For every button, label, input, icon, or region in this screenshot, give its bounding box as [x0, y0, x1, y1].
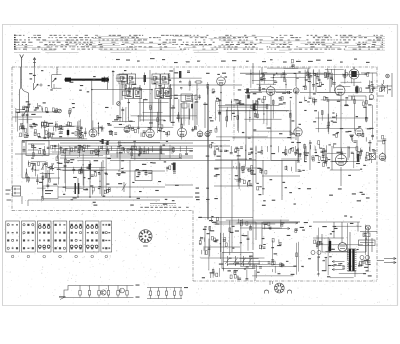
junction — [89, 196, 91, 198]
wire — [298, 242, 300, 272]
wire — [52, 148, 193, 150]
wire — [240, 266, 296, 268]
wire — [12, 116, 42, 118]
wire — [317, 228, 319, 277]
junction — [240, 220, 241, 221]
scan noise texture — [23, 48, 26, 51]
component cluster — [295, 228, 298, 230]
resistor — [129, 88, 131, 92]
wire — [353, 79, 355, 86]
shield box left open — [52, 74, 62, 76]
capacitor — [330, 76, 333, 78]
capacitor — [307, 77, 310, 79]
tube socket diagram 5 — [69, 221, 83, 252]
wire — [270, 140, 272, 160]
junction — [106, 143, 107, 144]
capacitor — [324, 161, 327, 163]
wire — [23, 146, 25, 154]
component cluster — [261, 170, 263, 174]
terminal strip — [21, 196, 23, 204]
wire — [143, 146, 145, 152]
arrow out 2 — [262, 228, 290, 230]
IF transformer can T7 — [155, 89, 163, 99]
resistor — [79, 170, 81, 174]
wire — [327, 114, 329, 132]
wire — [262, 160, 264, 195]
resistor — [177, 115, 179, 119]
component cluster — [194, 126, 196, 130]
wire — [377, 260, 384, 262]
wire loop left leg — [20, 88, 21, 112]
wire — [269, 281, 271, 285]
wire — [231, 99, 233, 120]
wire — [98, 146, 100, 157]
wire — [40, 173, 54, 175]
wire — [107, 146, 109, 151]
wire — [212, 269, 214, 278]
pot row P1 — [32, 163, 34, 170]
component cluster — [47, 167, 50, 168]
wire — [178, 99, 180, 123]
resistor — [65, 159, 67, 163]
wire — [45, 166, 47, 177]
component cluster — [368, 159, 371, 160]
wire — [236, 166, 238, 170]
junction — [245, 150, 246, 151]
wire — [252, 63, 254, 73]
power transformer T1 — [349, 249, 351, 271]
junction — [261, 72, 263, 74]
speaker feed wire — [272, 281, 274, 284]
IF transformer can T4 — [161, 74, 169, 84]
wire — [223, 261, 269, 263]
lamp branch 4 — [108, 286, 110, 291]
wire — [240, 220, 242, 266]
junction — [231, 101, 232, 102]
resistor R(dark) — [67, 130, 69, 135]
wire — [235, 178, 244, 180]
wire — [317, 244, 363, 246]
ladder input label +PU — [59, 296, 66, 297]
tube V15 — [124, 127, 130, 133]
wire — [300, 92, 336, 94]
wire — [332, 73, 334, 85]
resistor — [48, 133, 50, 137]
resistor — [316, 243, 318, 247]
capacitor — [121, 108, 124, 110]
resistor — [344, 74, 346, 78]
wire — [114, 126, 174, 128]
wire — [330, 277, 354, 279]
component cluster — [165, 132, 168, 134]
wire — [239, 163, 241, 181]
switch S1a — [33, 83, 35, 90]
wire — [252, 72, 254, 84]
wire — [297, 148, 299, 162]
component cluster — [285, 166, 287, 170]
wire — [285, 79, 287, 88]
tube V13 — [379, 154, 386, 161]
wire — [161, 146, 163, 154]
wire — [214, 185, 253, 187]
potentiometer P4 — [243, 256, 245, 265]
wire — [230, 146, 232, 152]
page edge right — [397, 25, 399, 306]
ladder 2 top rail — [147, 287, 182, 289]
capacitor — [47, 184, 50, 186]
component cluster — [235, 149, 237, 153]
wire — [209, 226, 211, 257]
wire — [309, 140, 311, 170]
capacitor — [72, 168, 75, 170]
component cluster — [140, 133, 142, 137]
capacitor — [64, 164, 67, 166]
wire — [245, 145, 247, 167]
resistor — [131, 146, 133, 150]
wire — [315, 73, 317, 92]
resistor — [322, 152, 324, 156]
wire — [34, 163, 36, 176]
component cluster — [91, 174, 94, 176]
junction — [351, 72, 352, 73]
component cluster — [307, 101, 310, 102]
wire — [338, 85, 351, 87]
stacked dark resistors — [246, 88, 249, 93]
junction — [129, 196, 131, 198]
wire — [234, 270, 236, 272]
wire — [77, 160, 89, 162]
electrolytic audio — [173, 163, 176, 171]
wire — [60, 142, 193, 144]
junction — [249, 117, 250, 118]
dial lamp top right — [386, 74, 390, 78]
component cluster — [307, 74, 310, 76]
socket number label 2 — [27, 255, 30, 258]
wire — [22, 140, 230, 142]
resistor — [365, 117, 367, 121]
trimmer capacitor CT — [79, 134, 83, 138]
component cluster — [34, 132, 36, 136]
tube socket diagram 3 — [37, 221, 51, 252]
wire — [18, 118, 32, 120]
component cluster — [258, 261, 260, 265]
component cluster — [387, 85, 389, 89]
wire — [336, 113, 338, 121]
wire — [226, 219, 289, 221]
wire — [240, 72, 330, 74]
tube V14 — [355, 128, 363, 136]
wire — [118, 170, 165, 172]
tube V10 — [335, 86, 345, 96]
schematic border right — [376, 67, 378, 281]
wire — [116, 77, 202, 79]
wire — [354, 271, 356, 277]
wave switch — [20, 111, 29, 113]
wire — [245, 92, 262, 94]
wire — [284, 67, 299, 69]
wire — [327, 99, 364, 101]
component cluster — [351, 151, 354, 153]
wire — [22, 140, 110, 142]
dark bar below detector — [191, 104, 193, 109]
capacitor — [230, 152, 233, 154]
wire — [304, 75, 306, 89]
capacitor — [80, 126, 83, 128]
schematic border top — [12, 66, 377, 68]
wire — [245, 95, 247, 140]
wire — [129, 160, 131, 197]
resistor — [237, 116, 239, 120]
wire — [271, 77, 307, 79]
wire — [128, 99, 130, 122]
wire — [297, 137, 299, 161]
junction — [77, 196, 79, 198]
component cluster — [203, 246, 205, 250]
capacitor — [340, 151, 343, 153]
wire — [257, 99, 259, 118]
wire — [64, 155, 66, 183]
wire — [220, 140, 222, 160]
resistor — [257, 114, 259, 118]
wire — [28, 199, 160, 201]
box right — [123, 91, 131, 96]
wire — [255, 146, 257, 183]
resistor — [326, 158, 328, 162]
wire — [331, 69, 333, 87]
socket label — [143, 246, 148, 247]
dark component cluster left-top — [102, 139, 104, 144]
component cluster — [57, 155, 59, 159]
wire to tone pot — [377, 140, 385, 142]
junction — [99, 181, 100, 182]
wire — [296, 243, 298, 275]
wire — [240, 227, 282, 229]
component cluster — [209, 130, 212, 132]
wire — [77, 178, 79, 197]
component cluster — [42, 123, 44, 127]
arrow out 1 — [262, 222, 298, 224]
resistor — [81, 169, 83, 173]
page edge top — [2, 24, 398, 26]
capacitor — [36, 179, 39, 181]
transistor in ladder — [101, 290, 106, 295]
wire — [272, 269, 274, 272]
component cluster — [310, 145, 312, 149]
component cluster — [100, 146, 103, 148]
wire — [105, 142, 107, 192]
wire — [240, 221, 256, 223]
wire — [263, 221, 300, 223]
wire — [41, 176, 43, 199]
wire — [28, 176, 30, 183]
wire — [55, 121, 57, 131]
wire — [236, 180, 238, 182]
wire — [290, 112, 292, 139]
junction — [26, 172, 27, 173]
wire — [17, 112, 19, 132]
junction — [273, 77, 274, 78]
wire — [15, 111, 57, 113]
wire — [83, 169, 85, 190]
wire — [249, 110, 251, 122]
wire — [237, 114, 239, 129]
wire — [26, 114, 28, 124]
wire — [369, 140, 371, 152]
component cluster — [363, 102, 365, 106]
wire — [58, 196, 193, 198]
wire — [37, 187, 46, 189]
wire — [44, 129, 46, 138]
component cluster — [58, 127, 61, 129]
resistor — [304, 144, 306, 148]
wire — [305, 146, 307, 160]
wire — [261, 67, 263, 73]
capacitor — [97, 149, 100, 151]
capacitor — [138, 172, 141, 174]
wire — [247, 231, 249, 251]
wire — [65, 187, 83, 189]
capacitor — [318, 78, 321, 80]
wire — [226, 109, 289, 111]
wire — [219, 233, 221, 259]
wire — [367, 239, 369, 271]
component cluster — [319, 240, 322, 242]
wire — [259, 77, 261, 91]
resistor — [28, 177, 30, 181]
tube V11 — [349, 69, 359, 79]
wire — [54, 126, 75, 128]
wire — [159, 85, 161, 125]
component cluster — [316, 83, 319, 84]
component cluster — [373, 86, 376, 88]
capacitor — [218, 111, 221, 113]
socket digits row — [38, 226, 41, 229]
ferrite rod antenna L1 — [65, 79, 110, 81]
wire — [160, 145, 162, 153]
wire — [222, 268, 224, 272]
wire — [60, 157, 193, 159]
wire — [52, 151, 110, 153]
wire — [78, 120, 80, 139]
wire — [156, 94, 197, 96]
wire — [257, 83, 277, 85]
junction — [98, 123, 99, 124]
wire — [138, 146, 140, 157]
resistor — [327, 73, 329, 77]
wire — [44, 146, 46, 155]
dial lamp ladder bottom rail — [64, 297, 134, 299]
IF transformer can T6 — [134, 89, 142, 99]
component cluster — [263, 244, 266, 245]
wire — [60, 150, 193, 152]
wire — [126, 148, 172, 150]
junction — [49, 173, 50, 174]
filter capacitor C-f1 — [311, 251, 315, 255]
component cluster — [291, 59, 293, 63]
wire — [304, 146, 306, 152]
IF transformer can T8 — [164, 89, 172, 99]
resistor — [117, 116, 119, 120]
wire — [261, 222, 263, 247]
wire — [218, 104, 279, 106]
capacitor — [297, 160, 300, 162]
wire — [118, 141, 161, 143]
wire — [333, 222, 335, 238]
wire — [365, 96, 367, 120]
mains switch box — [359, 240, 376, 246]
wire — [172, 105, 174, 126]
wire — [304, 144, 306, 162]
wire — [391, 73, 393, 97]
wire — [140, 119, 165, 121]
wire — [214, 100, 216, 120]
inner border vertical — [21, 141, 23, 179]
junction — [90, 164, 91, 165]
junction — [329, 72, 331, 74]
component cluster — [250, 226, 252, 230]
wire — [272, 240, 274, 263]
wire — [78, 146, 80, 157]
IF strip vertical wire — [112, 70, 114, 105]
trimmer label — [40, 84, 42, 86]
wire — [40, 137, 82, 139]
wire — [309, 73, 311, 96]
notes text row — [140, 207, 142, 208]
wire — [151, 78, 171, 80]
resistor — [168, 74, 170, 78]
component cluster — [262, 99, 264, 103]
capacitor C — [287, 91, 289, 94]
wire — [354, 99, 356, 132]
coupling box — [135, 171, 152, 181]
wire — [316, 235, 318, 249]
wire — [316, 128, 360, 130]
can drop wires — [122, 84, 124, 89]
wire — [250, 69, 252, 87]
IF transformer can T5 — [125, 89, 133, 99]
wire — [48, 166, 50, 178]
capacitor — [364, 233, 367, 235]
wire — [218, 268, 220, 277]
component cluster — [211, 236, 213, 240]
wire — [63, 170, 104, 172]
junction — [117, 152, 118, 153]
wire — [84, 128, 86, 137]
resistor — [125, 85, 127, 89]
wire — [359, 148, 361, 159]
wire — [31, 161, 46, 163]
detector box — [181, 94, 193, 102]
capacitor — [26, 113, 29, 115]
component cluster — [158, 124, 160, 128]
component cluster — [86, 145, 88, 149]
transistor 2 in ladder — [120, 288, 125, 293]
wire — [308, 68, 310, 78]
wire — [189, 80, 191, 91]
socket number label 1 — [11, 255, 14, 258]
wire — [32, 166, 34, 173]
junction — [336, 115, 337, 116]
component cluster — [132, 127, 134, 131]
component cluster — [91, 150, 93, 154]
wire — [321, 99, 344, 101]
component cluster — [47, 146, 50, 148]
wire — [220, 86, 222, 140]
wire — [365, 154, 367, 159]
capacitor — [143, 151, 146, 153]
wire — [139, 85, 141, 122]
wire — [253, 130, 291, 132]
